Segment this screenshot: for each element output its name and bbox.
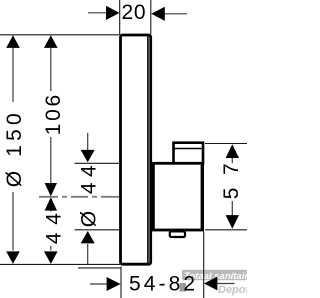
svg-text:Ø 150: Ø 150: [3, 113, 26, 187]
svg-text:106: 106: [42, 95, 65, 136]
svg-text:Depot: Depot: [218, 284, 247, 296]
svg-text:20: 20: [122, 1, 146, 24]
svg-text:54-82: 54-82: [129, 272, 195, 295]
